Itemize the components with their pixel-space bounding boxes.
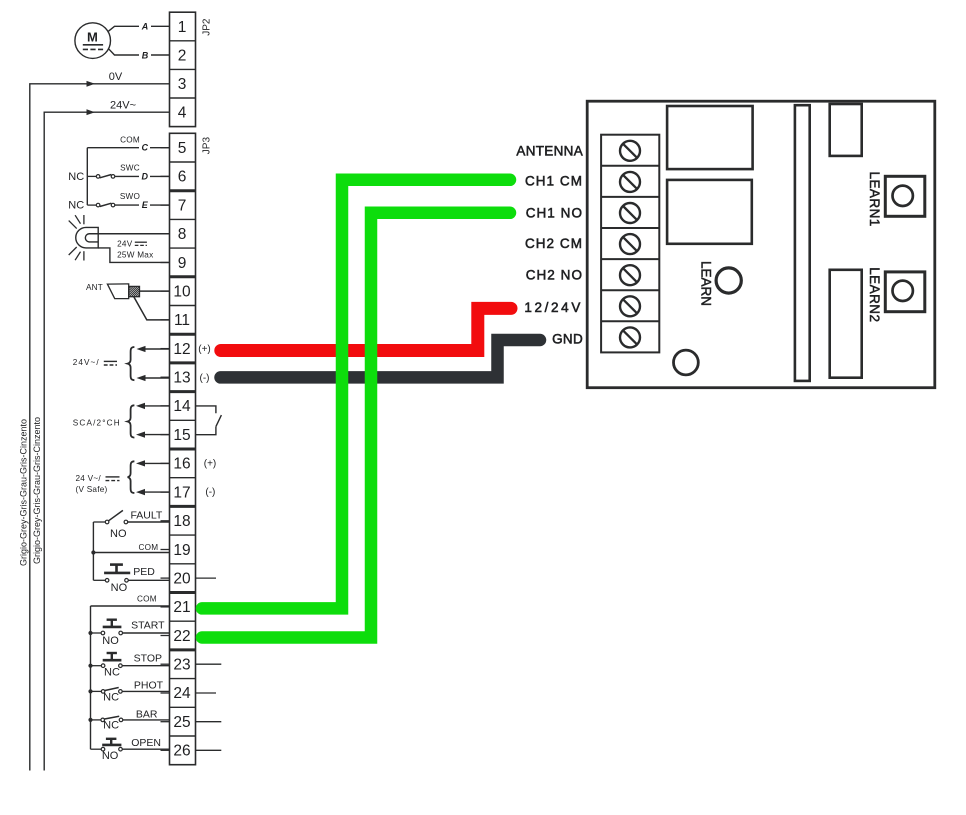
LEARN button [716,268,741,293]
block separator [170,189,196,192]
svg-text:A: A [141,22,149,32]
junction dot stop [88,664,92,668]
pushbutton START (NO) [107,619,117,621]
svg-text:8: 8 [178,226,187,243]
svg-text:19: 19 [173,542,190,559]
LEARN1 button [885,176,925,216]
wire motor B to terminal 2 [109,49,170,55]
block separator [170,333,196,336]
svg-text:24V~/: 24V~/ [73,358,100,367]
svg-text:14: 14 [173,398,191,415]
wire COM C to terminal 5 [87,147,169,149]
stub terminal 24 [196,692,217,694]
wire 24V~ feed (left vertical bus 2) [44,112,169,770]
block separator [170,448,196,451]
svg-text:CH2 CM: CH2 CM [525,236,583,251]
dc symbol [106,476,120,478]
screw terminal 12/24V [620,296,640,316]
svg-text:B: B [142,50,149,60]
svg-text:NO: NO [102,750,119,762]
stub terminal 25 [196,721,222,723]
svg-text:15: 15 [173,427,190,444]
svg-text:NO: NO [110,528,127,540]
svg-text:NC: NC [104,667,120,679]
svg-text:Grigio-Grey-Gris-Grau-Gris-Cin: Grigio-Grey-Gris-Grau-Gris-Cinzento [19,419,29,566]
svg-text:13: 13 [173,370,190,387]
svg-text:LEARN: LEARN [699,261,714,306]
svg-text:3: 3 [178,76,187,93]
wire arrow to terminal 13 [145,377,170,379]
svg-text:26: 26 [173,743,190,760]
svg-text:NC: NC [68,171,84,183]
wire arrow to terminal 15 [145,434,170,436]
svg-text:5: 5 [178,140,187,157]
svg-text:COM: COM [138,543,158,552]
svg-text:CH2 NO: CH2 NO [526,267,583,282]
block separator [170,390,196,393]
block separator [170,505,196,508]
junction dot phot [88,689,92,693]
pushbutton STOP (NC) [107,652,117,654]
svg-text:LEARN1: LEARN1 [867,172,882,227]
screw terminal CH2 CM [620,234,640,254]
svg-text:24: 24 [173,685,191,702]
junction dot start [88,631,92,635]
dc symbol [104,360,117,362]
terminal strip JP3 [170,133,196,764]
lamp outer tube [76,227,98,248]
wire motor A to terminal 1 [109,26,170,31]
wire arrow to terminal 12 [145,348,170,350]
svg-text:SWC: SWC [120,164,140,173]
wire SWC D to terminal 6 [115,175,170,177]
svg-text:(V Safe): (V Safe) [76,485,108,494]
svg-text:0V: 0V [109,71,123,83]
stub terminal 20 [196,577,217,579]
screw terminal CH1 NO [620,203,640,223]
brace SCA [128,405,135,437]
svg-text:FAULT: FAULT [130,509,162,521]
svg-text:22: 22 [173,628,190,645]
wire black GND to terminal 13 [221,340,541,377]
terminal strip JP2 [170,12,196,126]
wire green CH1 CM to terminal 21 [202,180,510,609]
svg-text:JP3: JP3 [201,137,212,155]
svg-text:(-): (-) [205,487,215,498]
svg-text:12: 12 [173,341,190,358]
svg-text:16: 16 [173,456,190,473]
block separator [170,275,196,278]
receiver terminal block [601,135,659,353]
junction dot bar [88,718,92,722]
switch FAULT (NO) [93,521,105,523]
svg-text:12/24V: 12/24V [524,300,583,315]
wire COM to terminal 19 [93,552,169,554]
switch PHOT (NC) [101,690,105,694]
wire red 12/24V to terminal 12 [221,308,511,350]
svg-text:CH1 NO: CH1 NO [526,205,583,220]
wire lamp to terminal 9 [98,248,169,263]
relay 2 [667,180,752,244]
wire 0V feed (left vertical bus 1) [30,84,170,771]
svg-text:7: 7 [178,197,187,214]
wire arrow to terminal 14 [145,405,170,407]
block separator [170,648,196,651]
svg-text:D: D [142,171,149,181]
svg-text:PHOT: PHOT [134,679,164,691]
wire OPEN to terminal 26 [122,748,169,750]
svg-text:1: 1 [178,19,187,36]
svg-text:LEARN2: LEARN2 [867,267,882,322]
pushbutton OPEN (NO) [106,738,117,740]
wire START to terminal 22 [123,632,170,634]
svg-text:JP2: JP2 [201,18,212,36]
svg-text:6: 6 [178,169,187,186]
relay 1 [667,106,753,169]
node vertical common bus [90,606,92,749]
svg-text:(-): (-) [200,373,210,384]
wire COM to terminal 21 [91,605,170,607]
svg-text:NO: NO [102,635,119,647]
svg-text:ANT: ANT [86,283,103,292]
svg-text:Grigio-Grey-Gris-Grau-Gris-Cin: Grigio-Grey-Gris-Grau-Gris-Cinzento [32,417,42,564]
svg-text:COM: COM [137,594,157,603]
block separator [170,591,196,594]
wire SWO E to terminal 7 [115,204,170,206]
brace 24V~ output [128,347,135,380]
wire lamp to terminal 8 [89,233,170,235]
svg-text:ANTENNA: ANTENNA [516,143,583,158]
wire antenna shield to terminal 11 [134,297,170,320]
screw terminal GND [620,327,640,347]
node vertical link fault-ped [92,522,94,580]
wire green CH1 NO to terminal 22 [202,213,510,638]
svg-text:M: M [87,29,98,44]
screw terminal CH1 CM [620,172,640,192]
svg-text:17: 17 [173,484,190,501]
svg-text:OPEN: OPEN [131,737,161,749]
motor DC symbol solid line [83,44,103,46]
block separator [170,361,196,364]
screw terminal CH2 NO [620,265,640,285]
svg-text:2: 2 [178,47,187,64]
svg-text:24V: 24V [117,239,133,248]
receiver board outline [587,101,935,388]
motor DC symbol dashed line [83,48,103,50]
svg-text:SCA/2°CH: SCA/2°CH [73,419,121,428]
svg-text:(+): (+) [198,344,211,355]
svg-text:E: E [142,200,149,210]
svg-text:24 V~/: 24 V~/ [76,474,102,483]
wire FAULT to terminal 18 [128,521,170,523]
svg-text:25: 25 [173,714,190,731]
junction dot COM 19 [91,550,95,554]
wire STOP to terminal 23 [122,665,169,667]
svg-text:CH1 CM: CH1 CM [525,174,583,189]
svg-text:NC: NC [103,720,119,732]
switch SCA on right of terminals 14-15 [196,406,216,413]
wire arrow to terminal 16 [145,462,170,464]
wire antenna core to terminal 10 [140,290,170,292]
wire BAR to terminal 25 [123,719,170,721]
svg-text:NO: NO [111,582,128,594]
svg-text:23: 23 [173,657,190,674]
svg-text:NC: NC [68,200,84,212]
svg-text:START: START [131,619,165,631]
motor M1 circle [75,23,111,59]
svg-text:20: 20 [173,570,191,587]
svg-text:SWO: SWO [120,192,140,201]
terminal left stubs [161,147,170,149]
svg-text:C: C [142,143,149,153]
arrowhead 0V [87,81,96,87]
svg-text:10: 10 [173,283,191,300]
stub terminal 23 [196,663,222,665]
switch SWO contact [87,204,96,206]
svg-text:21: 21 [173,599,190,616]
lamp inner tube + wire to terminal 8 [85,234,98,242]
svg-text:GND: GND [552,332,583,347]
pushbutton PED (NO) [110,563,123,566]
arrowhead 24V~ [87,109,96,115]
svg-text:24V~: 24V~ [110,100,136,112]
svg-text:STOP: STOP [134,653,162,665]
pin header strip [795,105,810,381]
antenna cone [107,284,128,299]
antenna hatched connector [119,286,153,299]
stub terminal 26 [196,749,222,751]
svg-text:25W Max: 25W Max [117,250,153,259]
component rect top right [830,104,862,156]
svg-text:NC: NC [103,692,119,704]
buzzer circle [674,350,699,375]
svg-text:COM: COM [120,136,140,145]
svg-text:9: 9 [178,255,187,272]
svg-text:BAR: BAR [136,709,158,721]
svg-text:11: 11 [174,312,190,329]
screw terminal ANTENNA [620,141,640,161]
svg-text:(+): (+) [204,459,217,470]
wire PHOT to terminal 24 [122,690,169,692]
switch BAR (NC) [101,718,105,722]
svg-text:PED: PED [133,566,155,578]
component rect bottom right [830,270,862,378]
LEARN2 button [885,272,925,312]
wire PED to terminal 20 [128,579,169,581]
switch SWC contact [87,175,96,177]
lamp rays [69,215,84,261]
brace V safe [128,461,135,493]
svg-text:4: 4 [178,105,187,122]
wire arrow to terminal 17 [145,491,170,493]
node vertical link C-D-E [86,148,88,205]
svg-text:18: 18 [173,513,190,530]
